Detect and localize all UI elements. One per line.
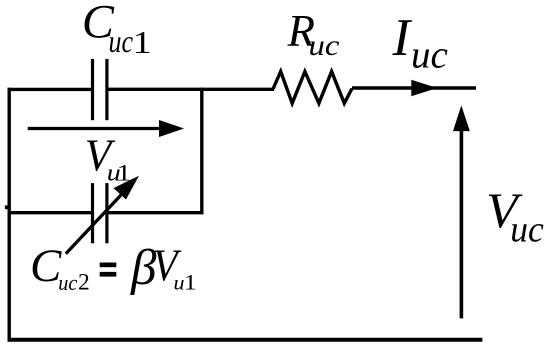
wire bottom-branch left segment (left wire to C_uc2 left plate) <box>9 211 92 214</box>
junction dot on left wire <box>5 205 8 209</box>
voltage arrow V_uc (vertical, points up) <box>453 105 470 318</box>
wire top-middle horizontal segment (C_uc1 right plate to resistor) <box>106 88 274 91</box>
svg-text:2: 2 <box>78 269 90 295</box>
label V_u1 <box>85 130 131 186</box>
svg-text:uc: uc <box>510 209 544 250</box>
bottom wire <box>8 338 483 342</box>
svg-text:C: C <box>30 240 62 292</box>
svg-text:I: I <box>392 9 413 67</box>
left vertical wire <box>7 88 10 342</box>
svg-text:uc: uc <box>309 29 340 62</box>
svg-text:uc: uc <box>411 34 448 77</box>
svg-text:uc: uc <box>109 23 134 59</box>
label V_uc <box>486 182 544 250</box>
capacitor C_uc1 right plate <box>105 59 108 120</box>
label R_uc <box>287 6 340 62</box>
resistor R_uc zigzag <box>273 72 352 104</box>
variable-capacitor diagonal arrow through C_uc2 <box>66 176 139 254</box>
label I_uc <box>392 9 448 77</box>
wire bottom-branch right segment (C_uc2 right plate to junction branch) <box>106 211 204 214</box>
current arrow head I_uc on wire <box>411 80 437 96</box>
wire top-right segment (resistor to open terminal) <box>352 86 476 89</box>
label C_uc1 <box>82 0 152 60</box>
svg-text:1: 1 <box>184 270 197 295</box>
capacitor C_uc2 left plate <box>91 183 94 243</box>
capacitor C_uc1 left plate <box>91 59 94 120</box>
voltage arrow V_u1 (horizontal, points right) <box>28 120 184 137</box>
capacitor C_uc2 right plate <box>105 183 108 243</box>
svg-text:1: 1 <box>133 24 152 60</box>
label equation C_uc2 = beta*V_u1 <box>30 240 197 296</box>
node junction: top wire to middle vertical branch <box>200 88 203 215</box>
wire top-left horizontal segment (left edge to C_uc1 left plate) <box>8 88 93 91</box>
svg-text:uc: uc <box>58 270 77 295</box>
